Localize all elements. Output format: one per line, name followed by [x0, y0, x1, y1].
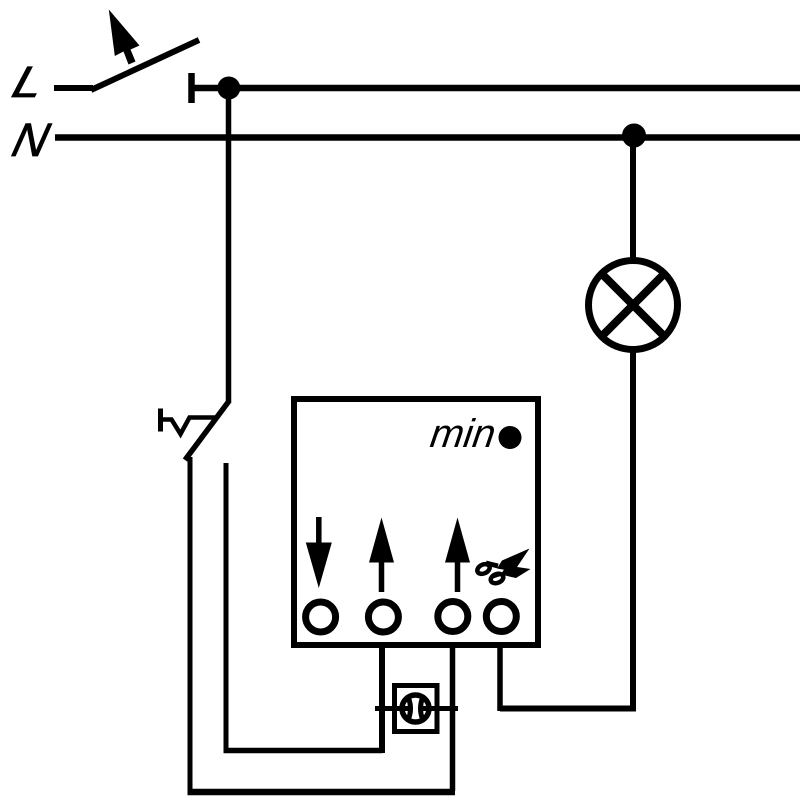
junction dot on L at switch output	[217, 77, 240, 100]
timer terminal circle 1	[306, 602, 336, 632]
glow lamp H1 lead line right	[420, 706, 458, 711]
wire up into timer terminal 2	[379, 645, 385, 753]
pushbutton S2 actuator bar	[158, 409, 163, 432]
lamp E1 cross stroke 1	[602, 274, 665, 337]
wire horizontal to timer terminal 2	[224, 748, 383, 754]
switch S1 blade (open, on L line)	[91, 40, 199, 90]
glow lamp H1 square housing	[395, 686, 438, 732]
wire L lead from label to switch S1	[54, 85, 93, 91]
glow lamp H1 lead line left	[375, 706, 411, 711]
switch S1 manual-operation arrow (cursor)	[109, 10, 140, 65]
timer arrow down (terminal 1)	[306, 517, 332, 588]
timer arrow up (terminal 3)	[445, 518, 470, 593]
lamp E1 cross stroke 2	[602, 274, 665, 337]
wire up into timer terminal 4	[497, 645, 503, 711]
timer arrow up (terminal 2)	[369, 518, 394, 593]
timer terminal circle 2	[368, 602, 398, 632]
glow lamp H1 circle	[402, 695, 429, 722]
switch S1 fixed contact bar	[188, 73, 195, 103]
wire horizontal lamp to timer terminal 4	[500, 706, 636, 712]
wire L bus line	[192, 85, 800, 92]
junction dot on N at lamp branch	[622, 124, 646, 148]
lamp E1 circle	[589, 261, 678, 350]
pushbutton S2 blade	[185, 401, 229, 460]
lamp E1 feed wire from N junction	[630, 136, 636, 263]
wire pushbutton second contact down	[224, 463, 229, 751]
wire from lamp down	[630, 349, 636, 709]
svg-text:min: min	[428, 411, 499, 456]
timer terminal circle 3	[438, 602, 468, 632]
wire from L junction down to pushbutton S2	[226, 88, 232, 403]
wire from bottom run up to timer terminal 3	[450, 645, 456, 791]
wire from pushbutton contact down left side	[188, 457, 193, 792]
glow lamp H1 electrode left	[409, 698, 411, 719]
wire bottom run to timer terminal 3	[188, 789, 456, 796]
timer unit U1 box	[294, 399, 538, 645]
timer terminal circle 4	[486, 602, 516, 632]
timer label dot	[499, 426, 522, 449]
glow lamp H1 electrode right	[421, 698, 423, 719]
timer scissors icon (cut function)	[476, 549, 531, 585]
wire N bus line	[55, 134, 800, 141]
pushbutton S2 actuator spring link	[161, 418, 217, 435]
